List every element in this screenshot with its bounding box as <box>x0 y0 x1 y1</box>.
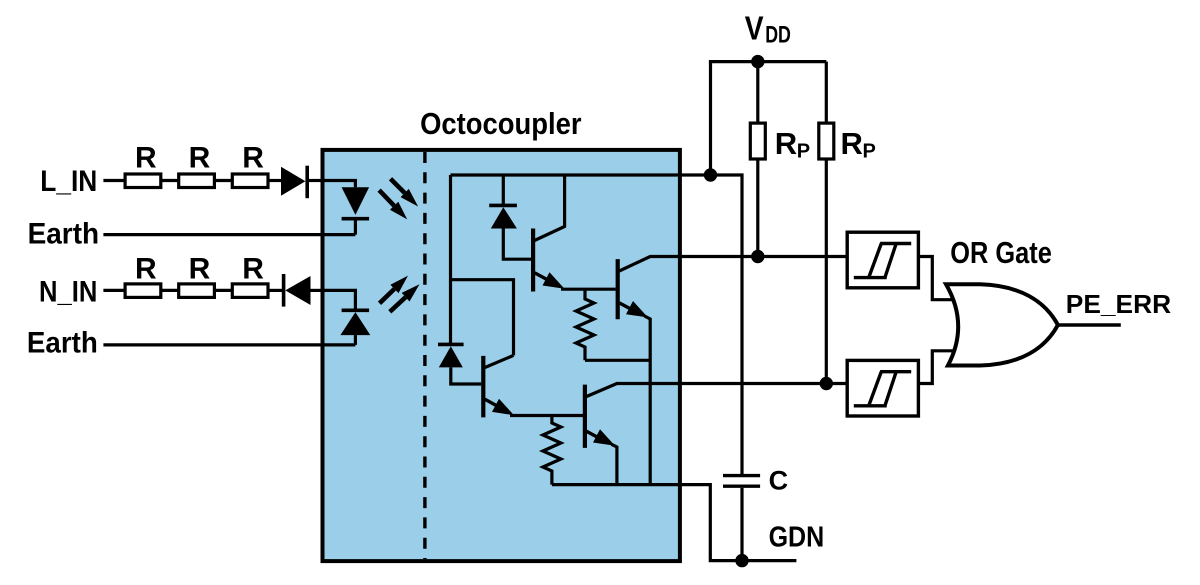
wire diode to package (N row) <box>311 289 323 292</box>
OR gate U1 <box>946 284 1058 365</box>
svg-text:R: R <box>189 142 211 175</box>
svg-text:R: R <box>135 142 157 175</box>
wire diode to package (L row) <box>307 179 322 182</box>
resistor R (N row 3) <box>232 284 268 298</box>
svg-text:L_IN: L_IN <box>40 165 97 198</box>
svg-text:R: R <box>775 126 797 161</box>
wire PE_ERR output <box>1057 323 1120 326</box>
svg-text:OR Gate: OR Gate <box>950 235 1052 270</box>
LED1 (upper emitter) <box>323 181 370 235</box>
resistor R (L row 2) <box>179 174 215 188</box>
label RP2 <box>841 126 876 162</box>
wire R3 to diode (L row) <box>268 179 282 182</box>
wire VDD top rail <box>709 60 826 63</box>
wire between R2 R3 (L row) <box>214 179 232 182</box>
resistor R (L row 1) <box>125 174 161 188</box>
node VDD junction <box>751 55 764 68</box>
label RP1 <box>775 126 810 162</box>
svg-text:R: R <box>841 126 863 161</box>
wire upper emitter return <box>585 359 650 362</box>
resistor R2 (lower base-emitter) <box>543 416 561 485</box>
wire ST1 output to OR gate <box>918 257 958 300</box>
diode D_L (series, pointing right) <box>281 166 307 199</box>
schmitt trigger ST1 <box>847 232 918 288</box>
capacitor C <box>723 476 760 561</box>
node RP2 bottom junction <box>820 377 833 390</box>
wire Earth lower <box>103 343 355 346</box>
svg-text:R: R <box>189 253 211 286</box>
photodiode D2 (lower channel) <box>438 344 481 384</box>
wire Earth upper <box>103 233 355 236</box>
optocoupler body (blue package) <box>323 150 680 561</box>
resistor RP2 <box>819 62 834 384</box>
svg-text:Earth: Earth <box>27 327 98 360</box>
resistor RP1 <box>750 62 765 257</box>
wire R3 to diode (N row) <box>268 289 284 292</box>
wire ST2 output to OR gate <box>918 351 958 384</box>
resistor R (N row 2) <box>179 284 215 298</box>
svg-text:V: V <box>745 9 764 46</box>
node RP1 bottom junction <box>751 250 764 263</box>
node GDN junction <box>735 554 748 567</box>
wire between R2 R3 (N row) <box>214 289 232 292</box>
svg-text:P: P <box>797 140 810 162</box>
transistor Q1 (upper darlington input) <box>533 175 616 292</box>
transistor Q3 (lower darlington input) <box>483 355 583 417</box>
svg-text:PE_ERR: PE_ERR <box>1066 289 1172 319</box>
isolation barrier dashed line <box>423 152 426 559</box>
svg-text:DD: DD <box>765 23 791 49</box>
svg-text:Octocoupler: Octocoupler <box>420 107 582 141</box>
label VDD <box>745 9 791 48</box>
LED2 (lower emitter) <box>323 290 371 345</box>
svg-text:P: P <box>863 140 876 162</box>
resistor R1 (upper base-emitter) <box>576 289 594 360</box>
svg-text:GDN: GDN <box>769 522 825 554</box>
wire inner top rail to capacitor branch <box>451 175 743 474</box>
resistor R (N row 1) <box>125 284 161 298</box>
wire between R1 R2 (N row) <box>161 289 179 292</box>
svg-text:Earth: Earth <box>28 218 100 251</box>
schmitt trigger ST2 <box>847 360 918 416</box>
svg-text:R: R <box>135 253 157 286</box>
svg-text:C: C <box>769 466 789 496</box>
transistor Q2 (upper darlington output) <box>618 257 848 485</box>
wire between R1 R2 (L row) <box>161 179 179 182</box>
svg-text:R: R <box>242 142 264 175</box>
svg-text:R: R <box>242 253 264 286</box>
svg-text:N_IN: N_IN <box>39 276 97 309</box>
photodiode D1 (upper channel) <box>489 175 531 259</box>
wire inner left rail <box>449 175 452 344</box>
diode D_N (series, pointing left) <box>284 274 311 307</box>
wire ground rail to GDN <box>552 485 797 561</box>
wire N_IN to resistor chain <box>103 289 125 292</box>
wire VDD left branch <box>709 62 712 175</box>
wire base branch lower channel <box>451 280 514 356</box>
node left branch junction <box>704 168 717 181</box>
resistor R (L row 3) <box>232 174 268 188</box>
light arrows LED2 <box>380 276 420 312</box>
light arrows LED1 <box>379 179 418 220</box>
transistor Q4 (lower darlington output) <box>585 384 847 485</box>
wire L_IN to resistor chain <box>103 179 125 182</box>
